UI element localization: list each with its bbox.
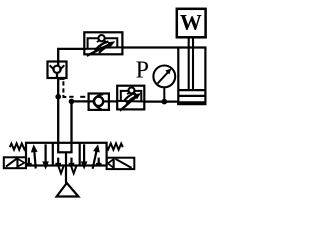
valve center position: A/B to T union	[57, 143, 73, 166]
valve right position: arrow down	[81, 144, 88, 170]
pilot line vertical dashed	[60, 79, 67, 97]
solenoid pilot actuator right	[107, 158, 135, 169]
spring left	[10, 143, 26, 149]
wire top port to cylinder	[122, 46, 178, 48]
piston	[178, 90, 205, 96]
tank triangle	[57, 183, 79, 197]
node B junction dot2	[69, 99, 75, 105]
pilot line horizontal dashed	[69, 96, 85, 98]
pilot operated check valve	[89, 94, 109, 110]
wire bottom port to cylinder	[144, 100, 178, 102]
node A junction dot1	[55, 94, 61, 100]
flow control valve 2 (with bypass check)	[117, 86, 144, 111]
valve right position: blocked port T	[96, 158, 102, 164]
valve right position: arrow up (tilted)	[93, 144, 100, 169]
node gauge junction	[162, 99, 168, 105]
wire B horizontal to pilot check	[72, 100, 89, 102]
spring right	[107, 143, 123, 149]
svg-text:W: W	[180, 10, 202, 35]
port chevrons below valve	[58, 166, 76, 173]
valve left position: arrow up	[31, 144, 38, 168]
flow control valve 1 (top, with bypass check)	[84, 32, 122, 56]
cylinder body	[177, 47, 206, 105]
check valve (vertical, in A line)	[48, 62, 67, 79]
valve left position: blocked port T	[26, 158, 32, 164]
wire tank line	[65, 166, 67, 184]
valve center position: blocked T symbols	[55, 158, 74, 164]
directional valve body	[26, 143, 107, 166]
wire pilot check to flow control 2	[109, 100, 117, 102]
svg-text:P: P	[136, 57, 149, 83]
wire A-line vertical	[57, 78, 59, 143]
wire B-line vertical	[70, 101, 72, 142]
wire A-line top elbow	[58, 49, 84, 62]
weight box W	[177, 9, 206, 38]
solenoid pilot actuator left	[4, 157, 26, 168]
pressure gauge	[153, 66, 175, 102]
valve left position: arrow down	[42, 144, 49, 170]
piston rod	[189, 37, 193, 90]
